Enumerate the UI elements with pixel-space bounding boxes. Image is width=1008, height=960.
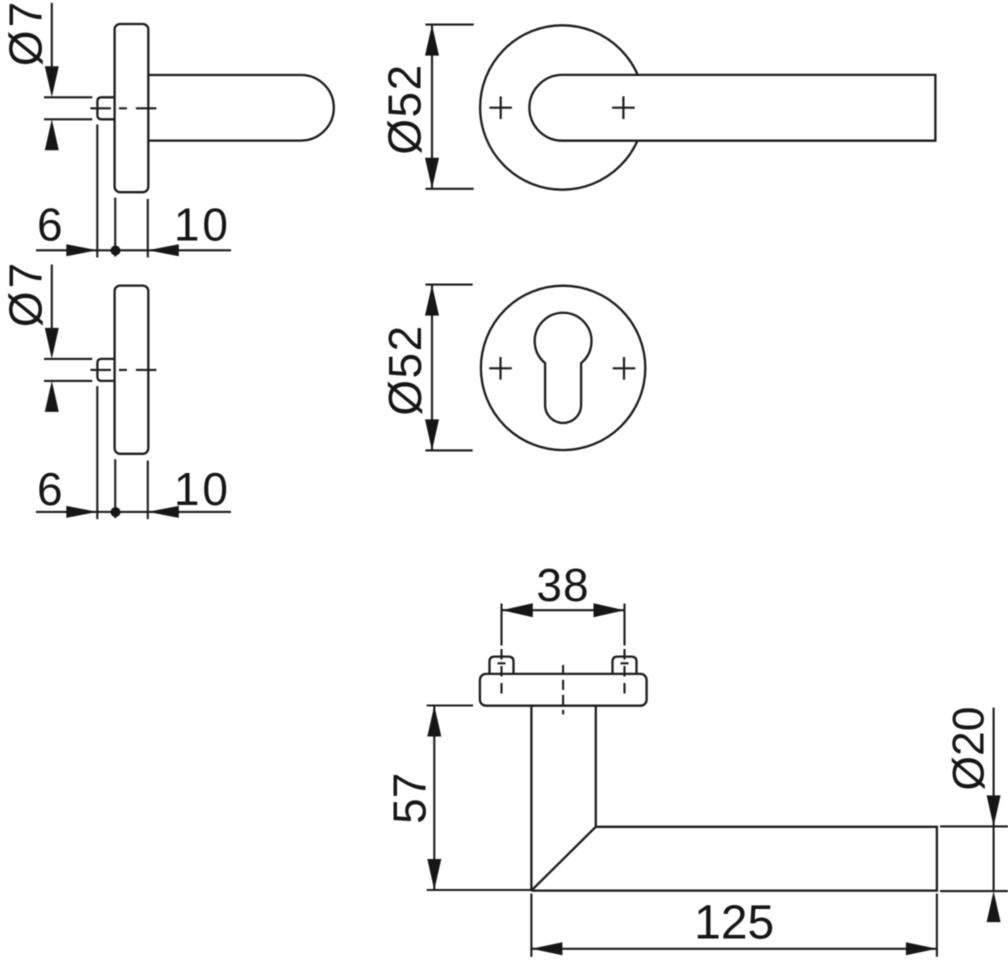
svg-text:6: 6 [37, 463, 63, 515]
svg-text:10: 10 [174, 199, 231, 251]
svg-text:Ø52: Ø52 [379, 63, 431, 154]
svg-text:10: 10 [174, 463, 231, 515]
svg-text:38: 38 [536, 559, 589, 611]
svg-text:125: 125 [694, 896, 774, 949]
svg-text:Ø20: Ø20 [945, 706, 994, 790]
svg-text:Ø7: Ø7 [0, 260, 52, 327]
svg-text:57: 57 [384, 773, 436, 824]
svg-text:6: 6 [37, 199, 63, 251]
svg-text:Ø52: Ø52 [379, 324, 431, 415]
svg-text:Ø7: Ø7 [0, 0, 52, 66]
